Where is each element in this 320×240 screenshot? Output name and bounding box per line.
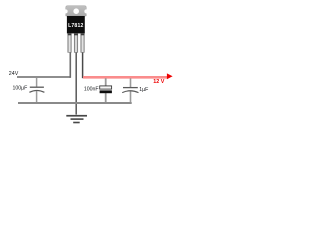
svg-text:100nF: 100nF	[84, 87, 99, 93]
svg-text:12 V: 12 V	[153, 79, 164, 85]
svg-text:24V: 24V	[9, 71, 19, 77]
svg-text:100µF: 100µF	[13, 85, 28, 91]
svg-text:L7812: L7812	[68, 23, 83, 29]
svg-text:1µF: 1µF	[139, 87, 148, 93]
